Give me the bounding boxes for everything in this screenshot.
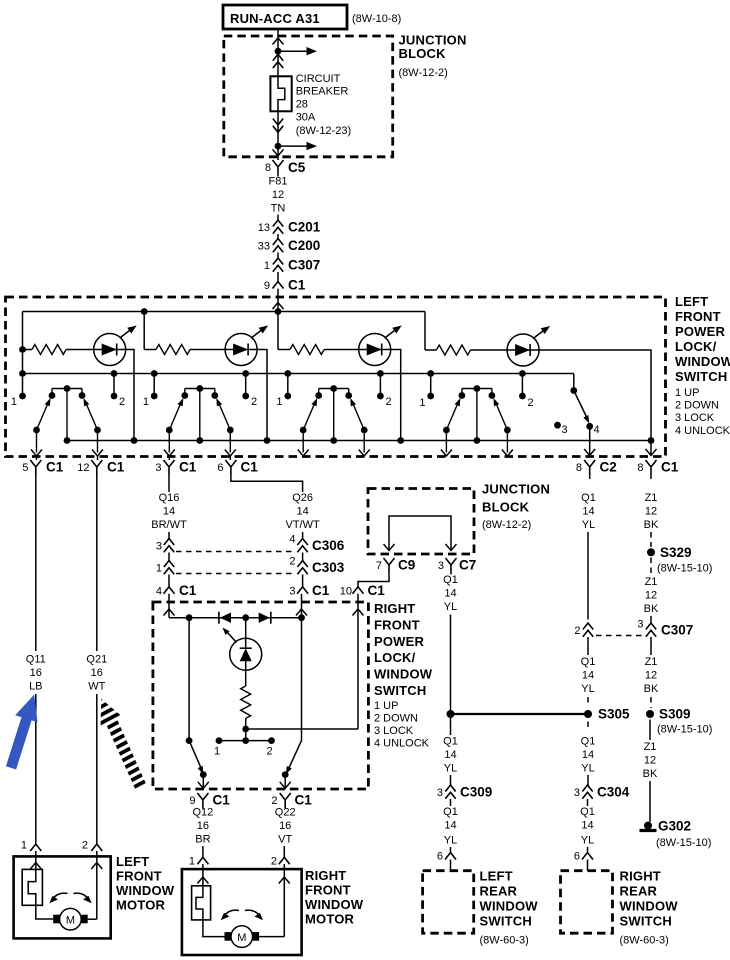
wire Q1 14 YL (below left splice) (443, 718, 458, 786)
svg-text:(8W-60-3): (8W-60-3) (620, 935, 669, 947)
svg-text:8: 8 (265, 162, 271, 174)
svg-text:C307: C307 (661, 623, 693, 638)
svg-text:1: 1 (419, 397, 425, 409)
svg-text:1 UP: 1 UP (374, 700, 398, 712)
svg-text:C1: C1 (295, 793, 313, 808)
svg-text:12: 12 (645, 590, 657, 602)
svg-text:1 UP: 1 UP (675, 387, 699, 399)
resistor R2 (156, 345, 190, 355)
wire right drop to switch arm (301, 618, 303, 741)
connector C1 pin 3 (155, 457, 196, 475)
svg-text:3: 3 (156, 541, 162, 553)
svg-text:C1: C1 (368, 583, 386, 598)
svg-text:3: 3 (574, 787, 580, 799)
splice S305 stub below (587, 722, 589, 732)
splice S329 (647, 545, 712, 575)
contact stub cell4 pin2 (521, 374, 523, 397)
svg-text:1: 1 (214, 746, 220, 758)
svg-text:Z1: Z1 (645, 576, 658, 588)
svg-text:C309: C309 (460, 785, 492, 800)
svg-text:3 LOCK: 3 LOCK (675, 412, 715, 424)
resistor R5 (vertical) (245, 670, 247, 686)
svg-text:10: 10 (340, 586, 352, 598)
svg-text:Q1: Q1 (443, 806, 458, 818)
svg-text:30A: 30A (296, 112, 316, 124)
svg-text:C303: C303 (312, 560, 345, 575)
svg-text:C1: C1 (312, 583, 330, 598)
splice S305 (584, 710, 592, 718)
svg-text:(8W-60-3): (8W-60-3) (480, 935, 529, 947)
blue annotation arrow (6, 695, 38, 770)
svg-text:BLOCK: BLOCK (399, 46, 447, 61)
svg-text:YL: YL (581, 683, 594, 695)
svg-text:RIGHT: RIGHT (374, 601, 415, 616)
svg-text:TN: TN (271, 203, 286, 215)
wire motor pin1 entry (35, 851, 37, 869)
wire exits to motor connectors (203, 775, 285, 789)
contact stub cell4 pin1 (430, 374, 432, 397)
contact row pins 1/2 (219, 740, 272, 742)
svg-text:1: 1 (189, 856, 195, 868)
svg-text:Q26: Q26 (292, 492, 313, 504)
svg-text:C1: C1 (288, 278, 306, 293)
connector C1 pin 12 (77, 457, 124, 475)
svg-text:FRONT: FRONT (675, 309, 721, 324)
circuit breaker (left motor) (22, 869, 42, 905)
wire Q1 14 YL (below C307) (581, 637, 596, 707)
lock/unlock switch pivot (573, 374, 575, 391)
svg-text:12: 12 (272, 189, 284, 201)
svg-text:2: 2 (119, 396, 125, 408)
svg-text:RUN-ACC A31: RUN-ACC A31 (230, 11, 320, 26)
switch arm left (window) (186, 737, 193, 744)
connector C2 pin 8 (576, 460, 617, 475)
svg-text:12: 12 (644, 755, 656, 767)
svg-text:BK: BK (643, 768, 658, 780)
svg-text:16: 16 (30, 667, 42, 679)
svg-text:(8W-10-8): (8W-10-8) (352, 13, 401, 25)
connector C1 pin 3 (right switch entry) (289, 575, 329, 618)
svg-text:8: 8 (576, 462, 582, 474)
contact stub cell3 pin2 (379, 374, 381, 397)
svg-text:YL: YL (444, 835, 457, 847)
contact stub cell3 pin1 (287, 374, 289, 397)
svg-text:8: 8 (637, 462, 643, 474)
svg-text:16: 16 (279, 820, 291, 832)
svg-text:C1: C1 (241, 460, 259, 475)
connector C307 pin 3 (ground side) (637, 619, 693, 638)
svg-text:14: 14 (444, 820, 456, 832)
wire Q26 14 VT/WT (231, 474, 320, 540)
wire motor pin2 entry (96, 851, 98, 919)
LED indicator 1 (94, 326, 137, 366)
svg-text:6: 6 (437, 851, 443, 863)
wire LED3 drop (391, 350, 401, 441)
wire Z1 12 BK (below S329) (644, 576, 659, 624)
connector C200 pin 33 (258, 238, 321, 258)
hatched annotation arrow (101, 699, 142, 788)
svg-text:(8W-12-2): (8W-12-2) (399, 67, 448, 79)
wire motor pin1 entry (right) (202, 864, 204, 886)
svg-text:WINDOW: WINDOW (374, 667, 433, 682)
connector C5 pin 8 (265, 160, 306, 175)
connector C1 pin 8 (637, 460, 678, 475)
svg-text:14: 14 (163, 506, 175, 518)
svg-text:LEFT: LEFT (480, 869, 513, 884)
right rear window switch box (561, 869, 679, 947)
svg-text:2: 2 (266, 746, 272, 758)
svg-text:33: 33 (258, 241, 270, 253)
svg-text:1: 1 (11, 396, 17, 408)
svg-text:2 DOWN: 2 DOWN (374, 713, 418, 725)
wire U-link C9 to C7 (389, 516, 451, 551)
svg-text:C7: C7 (459, 558, 476, 573)
svg-text:F81: F81 (269, 176, 288, 188)
svg-text:Q11: Q11 (26, 654, 46, 666)
svg-text:1: 1 (143, 396, 149, 408)
svg-text:2: 2 (574, 625, 580, 637)
svg-text:WINDOW: WINDOW (620, 899, 679, 914)
svg-text:LOCK/: LOCK/ (374, 650, 416, 665)
wire Q1 14 YL (C2 column) (581, 474, 596, 620)
svg-text:WINDOW: WINDOW (305, 897, 364, 912)
svg-text:4: 4 (289, 534, 295, 546)
junction block exit wire (277, 146, 279, 160)
svg-text:C201: C201 (288, 220, 321, 235)
svg-text:S309: S309 (659, 707, 691, 722)
svg-text:16: 16 (197, 820, 209, 832)
svg-text:C1: C1 (179, 460, 197, 475)
svg-text:YL: YL (581, 763, 594, 775)
wire unlock contact exit (589, 426, 591, 456)
svg-text:1: 1 (264, 260, 270, 272)
svg-text:3: 3 (562, 424, 568, 436)
circuit breaker 28 30A (270, 73, 351, 137)
svg-text:FRONT: FRONT (305, 883, 351, 898)
svg-text:WINDOW: WINDOW (480, 899, 539, 914)
svg-text:BR/WT: BR/WT (151, 519, 187, 531)
svg-text:C1: C1 (661, 460, 679, 475)
svg-text:Q12: Q12 (193, 807, 214, 819)
svg-text:BLOCK: BLOCK (482, 500, 530, 515)
connector C1 pin 9 (189, 793, 230, 808)
svg-text:WINDOW: WINDOW (675, 354, 730, 369)
svg-text:M: M (237, 932, 246, 944)
wire breaker to lower node (277, 111, 279, 146)
svg-text:16: 16 (91, 667, 103, 679)
svg-text:SWITCH: SWITCH (620, 914, 672, 929)
svg-text:Q21: Q21 (86, 654, 107, 666)
svg-text:C5: C5 (288, 160, 306, 175)
left rear window switch box (423, 869, 539, 947)
svg-text:4: 4 (594, 424, 600, 436)
svg-text:SWITCH: SWITCH (480, 914, 532, 929)
svg-text:C306: C306 (312, 538, 345, 553)
svg-text:BR: BR (195, 834, 210, 846)
connector C9 pin 7 (376, 558, 415, 573)
wire top bus A (23, 311, 426, 313)
svg-text:C1: C1 (213, 793, 231, 808)
svg-text:28: 28 (296, 99, 308, 111)
svg-text:1: 1 (21, 840, 27, 852)
wire bottom bus C (67, 440, 651, 442)
inline connector chevrons (upper) (277, 51, 279, 76)
LED indicator 3 (359, 326, 402, 366)
svg-text:BK: BK (644, 519, 659, 531)
svg-text:2: 2 (251, 396, 257, 408)
svg-text:3: 3 (155, 462, 161, 474)
wire left drop to switch arm (188, 618, 190, 741)
resistor R4 (436, 345, 470, 355)
resistor R3 (290, 345, 324, 355)
connector C7 pin 3 (438, 558, 476, 573)
contact stub cell1 pin1 (22, 374, 24, 397)
svg-text:C1: C1 (107, 460, 125, 475)
svg-text:G302: G302 (658, 819, 691, 834)
ground G302 (640, 819, 712, 850)
motor M2 (225, 926, 285, 948)
svg-text:LOCK/: LOCK/ (675, 339, 717, 354)
svg-text:3: 3 (637, 619, 643, 631)
svg-text:SWITCH: SWITCH (374, 683, 426, 698)
wire Q11 16 LB (left column) (26, 474, 46, 844)
svg-text:REAR: REAR (480, 884, 518, 899)
svg-text:MOTOR: MOTOR (305, 912, 355, 927)
svg-text:YL: YL (444, 763, 457, 775)
splice node (left) on S305 link (447, 710, 455, 718)
svg-text:MOTOR: MOTOR (116, 898, 166, 913)
svg-text:6: 6 (217, 462, 223, 474)
wire Q1 14 YL (below S305) (581, 736, 596, 787)
svg-text:S329: S329 (660, 545, 692, 560)
svg-text:2: 2 (271, 795, 277, 807)
svg-text:Z1: Z1 (645, 656, 658, 668)
svg-text:S305: S305 (598, 707, 630, 722)
svg-text:12: 12 (645, 670, 657, 682)
wire Z1 12 BK (to ground) (643, 741, 658, 822)
svg-text:POWER: POWER (675, 324, 726, 339)
svg-text:1: 1 (276, 396, 282, 408)
wire resistor node to pin10 drop (246, 728, 358, 730)
svg-text:12: 12 (77, 462, 89, 474)
svg-text:14: 14 (444, 749, 456, 761)
svg-text:14: 14 (582, 506, 594, 518)
connector C1 pin 4 (right switch entry) (156, 575, 197, 618)
svg-text:9: 9 (264, 280, 270, 292)
wire LED4 to right bus (539, 350, 651, 441)
connector C304 pin 3 (574, 785, 630, 800)
left front window motor M1 box (14, 854, 175, 938)
switch arm right (window) (287, 741, 301, 772)
rotation arrows (left motor) (52, 893, 68, 900)
wire Q1 14 YL (to left rear switch) (437, 799, 458, 871)
svg-text:14: 14 (582, 749, 594, 761)
svg-text:BK: BK (644, 603, 659, 615)
svg-text:(8W-12-2): (8W-12-2) (482, 519, 531, 531)
svg-text:1: 1 (156, 563, 162, 575)
svg-text:POWER: POWER (374, 634, 425, 649)
left front power lock/window switch U2 dashed box (6, 294, 730, 457)
svg-text:Z1: Z1 (645, 492, 658, 504)
lock/unlock switch arm (574, 391, 588, 421)
svg-text:Q1: Q1 (581, 736, 596, 748)
connector C303 pins 1/2 (156, 553, 345, 576)
svg-text:C2: C2 (600, 460, 617, 475)
wire Q22 16 VT (275, 807, 296, 858)
svg-text:Q22: Q22 (275, 807, 296, 819)
svg-text:Z1: Z1 (644, 741, 657, 753)
svg-text:Q16: Q16 (159, 492, 180, 504)
wire F81 12 TN (269, 174, 288, 221)
motor M1 (53, 908, 97, 930)
splice S309 (646, 707, 712, 741)
svg-text:LB: LB (29, 681, 42, 693)
svg-text:12: 12 (645, 506, 657, 518)
svg-text:M: M (66, 915, 75, 927)
svg-text:9: 9 (189, 795, 195, 807)
svg-text:C1: C1 (46, 460, 64, 475)
right front window motor M2 box (182, 868, 364, 955)
svg-text:SWITCH: SWITCH (675, 369, 727, 384)
wire Q16 14 BR/WT (151, 474, 187, 540)
node tap with feed arrow (upper) (275, 48, 282, 55)
svg-text:(8W-15-10): (8W-15-10) (657, 724, 712, 736)
svg-text:14: 14 (582, 670, 594, 682)
connector C1 pin 5 (22, 457, 63, 475)
svg-text:YL: YL (582, 519, 595, 531)
connector C309 pin 3 (437, 785, 492, 800)
diode D2 (259, 613, 270, 623)
svg-text:2 DOWN: 2 DOWN (675, 400, 719, 412)
svg-text:(8W-15-10): (8W-15-10) (656, 837, 711, 849)
svg-text:C307: C307 (288, 258, 320, 273)
svg-text:VT: VT (278, 834, 292, 846)
wire C9 to C1 pin10 (358, 572, 389, 587)
svg-text:RIGHT: RIGHT (305, 868, 346, 883)
svg-text:Q1: Q1 (443, 574, 458, 586)
wire top bus (right switch) (169, 617, 302, 619)
wire right bus exit (650, 441, 652, 457)
svg-text:5: 5 (22, 462, 28, 474)
svg-text:REAR: REAR (620, 884, 658, 899)
wire motor pin2 entry (right) (283, 864, 285, 937)
svg-text:WINDOW: WINDOW (116, 883, 175, 898)
fuse source box RUN-ACC A31 (223, 5, 401, 29)
junction block U3 dashed box (368, 482, 550, 555)
svg-text:LEFT: LEFT (116, 854, 149, 869)
svg-text:2: 2 (528, 397, 534, 409)
LED indicator 2 (225, 326, 268, 366)
svg-text:BREAKER: BREAKER (296, 86, 349, 98)
rotation arrows (right motor) (223, 910, 239, 917)
svg-text:Q1: Q1 (580, 806, 595, 818)
connector C201 pin 13 (258, 220, 321, 239)
connector C1 pin 9 (switch entry) (264, 278, 306, 312)
svg-text:YL: YL (581, 835, 594, 847)
wire Q12 16 BR (193, 807, 214, 858)
svg-text:14: 14 (296, 506, 308, 518)
svg-text:WT: WT (88, 681, 105, 693)
switch SW4 window up/down (441, 385, 513, 456)
wire Q1 14 YL (C7 column) (443, 572, 458, 714)
switch SW3 window up/down (298, 385, 370, 456)
svg-text:(8W-12-23): (8W-12-23) (296, 125, 351, 137)
svg-text:FRONT: FRONT (374, 618, 420, 633)
wire S305 crosslink (451, 713, 589, 715)
svg-text:4 UNLOCK: 4 UNLOCK (374, 738, 430, 750)
wire RUN-ACC to junction block entry (277, 29, 279, 52)
LED indicator (right switch) (223, 618, 262, 671)
switch SW2 window up/down (164, 385, 236, 456)
node tap with feed arrow (lower) (275, 143, 282, 150)
connector C307 pin 1 (264, 258, 320, 282)
svg-text:Q1: Q1 (581, 492, 596, 504)
right front power lock/window switch U4 dashed box (153, 601, 433, 789)
contact stub cell2 pin1 (153, 374, 155, 397)
switch SW1 window up/down (31, 385, 103, 456)
wire Q21 16 WT (second column) (86, 474, 107, 844)
svg-text:Q1: Q1 (443, 736, 458, 748)
svg-text:3 LOCK: 3 LOCK (374, 725, 414, 737)
connector C1 pin 6 (217, 457, 258, 475)
svg-text:C9: C9 (398, 558, 415, 573)
svg-text:Q1: Q1 (581, 656, 596, 668)
svg-text:(8W-15-10): (8W-15-10) (657, 563, 712, 575)
svg-text:7: 7 (376, 560, 382, 572)
svg-text:CIRCUIT: CIRCUIT (296, 73, 341, 85)
svg-text:JUNCTION: JUNCTION (482, 482, 550, 497)
LED indicator 4 (507, 326, 550, 366)
svg-text:4: 4 (156, 586, 162, 598)
wire Z1 12 BK (below C307) (644, 637, 659, 708)
wire mid bus B (23, 373, 574, 375)
svg-text:C304: C304 (597, 785, 630, 800)
contact stub cell1 pin2 (113, 374, 115, 397)
svg-text:4 UNLOCK: 4 UNLOCK (675, 425, 730, 437)
contact stub cell2 pin2 (245, 374, 247, 397)
svg-text:6: 6 (574, 851, 580, 863)
svg-text:2: 2 (82, 840, 88, 852)
svg-text:14: 14 (444, 588, 456, 600)
connector C1 pin 2 (271, 793, 312, 808)
svg-text:FRONT: FRONT (116, 869, 162, 884)
svg-text:3: 3 (289, 586, 295, 598)
wire cell feeders (23, 312, 426, 374)
svg-text:VT/WT: VT/WT (285, 519, 319, 531)
connector C306 pins 3/4 (156, 534, 345, 554)
svg-text:2: 2 (289, 556, 295, 568)
svg-text:13: 13 (258, 222, 270, 234)
node 3 lock contact (554, 422, 561, 429)
connector C307 pin 2 (574, 623, 643, 637)
svg-text:RIGHT: RIGHT (620, 869, 661, 884)
wire Q1 14 YL (to right rear switch) (574, 799, 595, 871)
junction block U1 (top) dashed box (224, 33, 467, 157)
svg-text:2: 2 (271, 856, 277, 868)
wire LED2 drop (257, 350, 267, 441)
svg-text:2: 2 (386, 396, 392, 408)
circuit breaker (right motor) (192, 886, 211, 920)
svg-text:14: 14 (581, 820, 593, 832)
svg-text:C200: C200 (288, 238, 320, 253)
svg-text:C1: C1 (179, 583, 197, 598)
connector C1 pin 10 (right switch entry) (340, 583, 385, 729)
svg-text:YL: YL (444, 601, 457, 613)
svg-text:3: 3 (437, 787, 443, 799)
wire Z1 12 BK (ground column) (644, 474, 659, 547)
svg-text:LEFT: LEFT (675, 294, 708, 309)
wire LED1 drop (126, 350, 134, 441)
